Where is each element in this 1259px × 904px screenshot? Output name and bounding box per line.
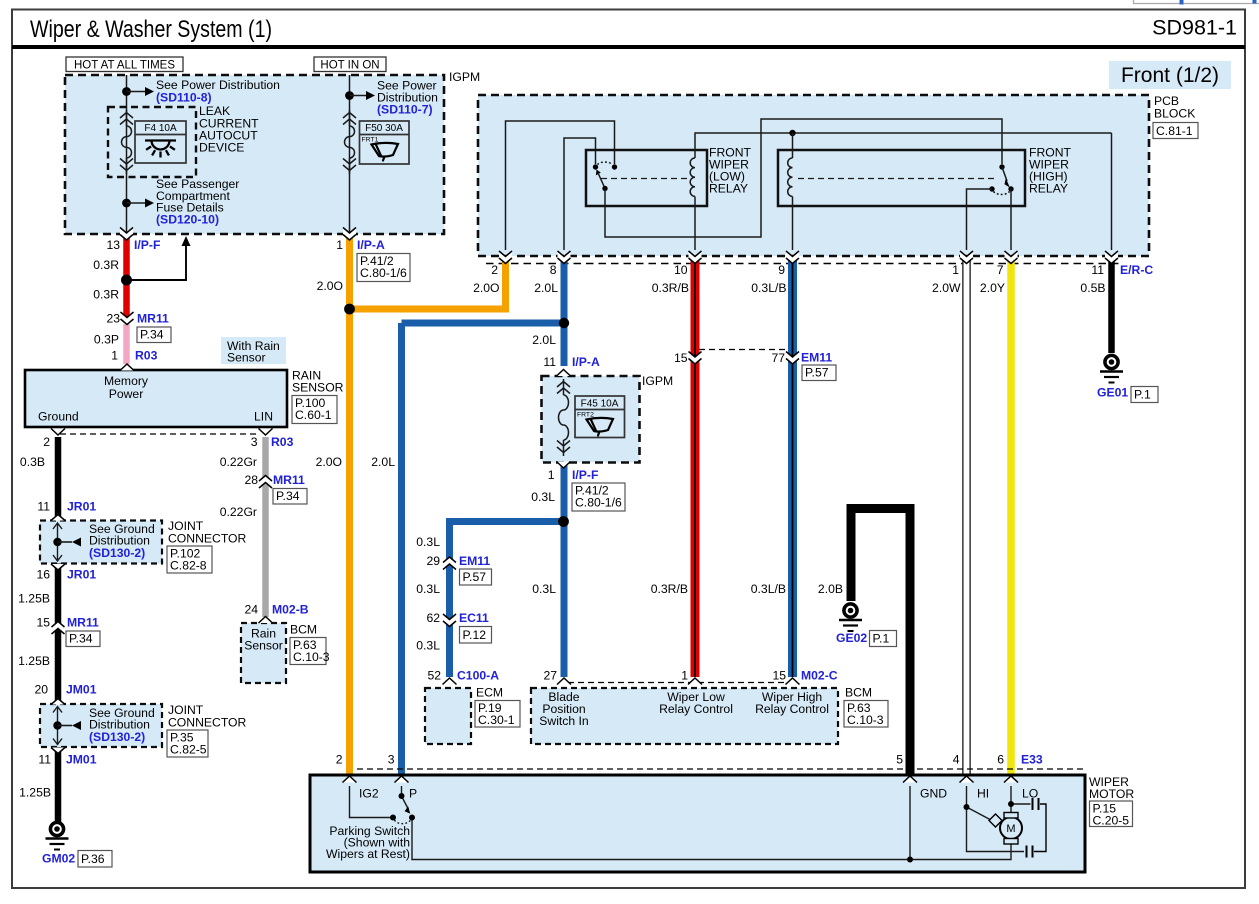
svg-text:15: 15 [772,669,786,683]
svg-text:JR01: JR01 [67,500,96,514]
svg-text:0.3R: 0.3R [93,288,119,302]
module memory power (rain sensor) [25,370,287,427]
svg-text:HI: HI [977,787,989,801]
refbox P.34 (MR11 28) [273,489,307,505]
svg-text:2.0O: 2.0O [473,281,499,295]
svg-text:LO: LO [1022,787,1038,801]
wire 0.3L branch [450,522,564,678]
svg-text:P.34: P.34 [276,489,300,503]
dashed connector line bottom [357,768,1083,770]
dashed link 15-77 [699,349,789,351]
svg-text:C.82-5: C.82-5 [170,742,207,756]
svg-text:HOT AT ALL TIMES: HOT AT ALL TIMES [74,60,175,72]
node orange junction [344,304,355,315]
connector chevron C100-A 52 [443,678,457,685]
svg-text:Memory: Memory [104,374,149,388]
connector chevron M02-B 24 [259,617,273,624]
connector chevron EC11 62 [443,614,456,627]
svg-text:Relay Control: Relay Control [659,702,733,716]
connector chevron MR11 28 [259,476,272,489]
wire rail to pin11 [1111,133,1113,250]
svg-text:C100-A: C100-A [457,669,499,683]
ground GE01 symbol [1100,355,1123,382]
svg-text:2.0W: 2.0W [932,281,961,295]
PCB BLOCK box [478,95,1149,256]
svg-text:MR11: MR11 [273,473,305,487]
PCB pin 2 connector chevron [499,251,512,264]
svg-text:IG2: IG2 [359,787,379,801]
svg-text:(SD130-2): (SD130-2) [89,546,145,560]
svg-text:6: 6 [997,753,1004,767]
svg-text:Relay Control: Relay Control [755,702,829,716]
svg-text:SENSOR: SENSOR [292,381,344,395]
refbox P.41/2 C.80-1/6 [357,254,410,282]
svg-text:0.22Gr: 0.22Gr [220,455,257,469]
svg-text:EM11: EM11 [801,351,832,365]
refbox P.63 C.10-3 (rain) [290,638,330,665]
svg-text:2.0L: 2.0L [534,281,558,295]
relay box front wiper high [778,150,1025,206]
parking switch wiring [350,786,1012,860]
connector chevron I/P-F exit [557,462,571,469]
node joint connector 1 [53,538,61,546]
dashed connector line BCM pins [568,682,788,684]
wire 2.0O horizontal [350,306,510,313]
module rain sensor [241,623,286,683]
refbox P.36 [78,851,112,868]
node gnd join [907,857,913,863]
svg-text:2.0Y: 2.0Y [980,281,1005,295]
svg-text:3: 3 [388,753,395,767]
svg-text:C.80-1/6: C.80-1/6 [360,266,407,280]
wire hot-at-all-times feed [126,75,128,236]
connector chevron I/P-A 1 [343,228,356,241]
wire 2.0W white [962,258,971,775]
power distribution box (HOT feeds, IGPM) [65,75,444,234]
connector chevron pin 15 M02-C [786,678,800,685]
svg-text:F50 30A: F50 30A [365,123,403,134]
wire 0.3R [123,236,130,318]
svg-text:GE02: GE02 [836,631,867,645]
svg-text:CONNECTOR: CONNECTOR [168,716,247,730]
svg-text:IGPM: IGPM [642,374,673,388]
node coil rail junction [789,130,795,136]
svg-text:2.0L: 2.0L [532,333,556,347]
connector dashed line below PCB block [486,263,1122,265]
fuse F45 10A symbol [557,379,570,456]
svg-text:BCM: BCM [290,623,317,637]
svg-text:0.3L: 0.3L [531,490,555,504]
PCB pin 9 connector chevron [786,251,799,264]
svg-text:FRT2: FRT2 [577,412,594,419]
svg-text:5: 5 [896,753,903,767]
node blue junction lower [558,516,569,527]
ground GM02 symbol [46,822,69,849]
svg-text:23: 23 [106,312,120,326]
wire relay1 coil top rail [695,133,1112,150]
svg-text:0.3R: 0.3R [93,258,119,272]
title rule [12,45,1245,49]
connector chevron JR01 11 [51,515,65,521]
svg-text:C.81-1: C.81-1 [1156,124,1193,138]
svg-text:(SD120-10): (SD120-10) [156,213,219,227]
svg-text:RELAY: RELAY [1029,182,1068,196]
wire 0.3P pink [123,324,130,364]
svg-text:RELAY: RELAY [709,182,748,196]
refbox P.57 (EM11 29) [460,569,492,585]
wire 2.0O pin2 stub [502,258,509,309]
svg-text:11: 11 [37,500,50,514]
svg-text:JM01: JM01 [66,753,97,767]
svg-text:2: 2 [336,753,343,767]
svg-text:C.20-5: C.20-5 [1093,813,1130,827]
PCB pin 8 connector chevron [558,251,571,264]
relay1 switch contacts [593,162,617,170]
wire 1.25B ground lower [55,747,62,822]
svg-text:1: 1 [952,263,959,277]
svg-text:I/P-F: I/P-F [134,238,160,252]
svg-text:1.25B: 1.25B [19,786,51,800]
wire 2.0L branch horizontal [402,320,565,327]
svg-text:LIN: LIN [254,410,273,424]
svg-text:0.3L: 0.3L [416,639,440,653]
relay2 coil [788,133,793,206]
wire pin2 to relay1 NO contact [506,121,615,250]
svg-text:(SD110-8): (SD110-8) [156,91,212,105]
refbox P.35 C.82-5 [167,730,208,757]
svg-text:C.10-3: C.10-3 [847,713,884,727]
svg-text:CONNECTOR: CONNECTOR [168,532,247,546]
motor box entry chevron [343,776,357,783]
wire hot-in-on feed [349,75,351,236]
wiper icon F45 [587,418,614,436]
page thumbnail bar fragment [1134,0,1259,5]
wire 1.25B ground mid [55,564,62,705]
svg-text:EC11: EC11 [459,611,489,625]
svg-text:SD981-1: SD981-1 [1152,16,1237,40]
relay1 linkage dashed [601,178,689,180]
svg-text:Sensor: Sensor [227,351,266,365]
svg-text:15: 15 [36,616,50,630]
connector chevron R03 1 [120,364,134,371]
wire 2.0Y yellow [1007,258,1015,775]
svg-text:11: 11 [543,355,556,369]
wire 0.3L to blade position pin27 [561,462,568,677]
connector chevron 77 (blue) [786,352,799,365]
dashed connector line R03 [60,433,258,435]
svg-text:7: 7 [997,263,1004,277]
joint connector box 1 [40,521,162,564]
fuse F4 10A label box [135,121,186,163]
relay1 coil [690,150,695,206]
svg-text:P.1: P.1 [1134,388,1151,402]
refbox P.41/2 C.80-1/6 (2) [572,483,625,511]
connector chevron JM01 11 [51,748,65,754]
refbox P.57 [802,365,836,381]
PCB pin 7 connector chevron [1005,251,1018,264]
svg-text:Ground: Ground [38,410,79,424]
svg-text:P.57: P.57 [463,570,487,584]
LEAK CURRENT AUTOCUT DEVICE box [108,107,196,177]
connector chevron I/P-F 13 [120,228,133,241]
node passenger fuse tap [122,199,131,208]
wire 2.0L branch to parking switch [398,323,405,775]
svg-text:0.22Gr: 0.22Gr [220,505,257,519]
svg-text:M02-B: M02-B [272,603,309,617]
fuse F50 30A label box [360,121,410,164]
svg-text:27: 27 [543,669,557,683]
svg-text:E/R-C: E/R-C [1120,263,1153,277]
relay1 switch arm [596,170,608,192]
svg-text:9: 9 [778,263,785,277]
connector chevron memory pin2 [51,429,65,436]
svg-text:11: 11 [38,753,51,767]
svg-text:1.25B: 1.25B [18,592,50,606]
node power distribution tap 2 [345,91,354,100]
connector chevron JM01 20 [51,699,65,705]
wire relay2 coil to pin9 [792,206,794,250]
svg-text:M02-C: M02-C [801,669,838,683]
wire 2.0L pin8 upper [561,258,568,366]
svg-text:1.25B: 1.25B [18,654,50,668]
svg-text:IGPM: IGPM [449,70,480,84]
node blue junction upper [559,318,569,328]
svg-text:F45 10A: F45 10A [581,399,619,410]
connector chevron memory pin3 [259,429,273,436]
wire LO internal [1011,786,1031,813]
svg-text:EM11: EM11 [459,554,490,568]
fuse F45 10A label box [575,396,625,438]
svg-text:P.34: P.34 [140,327,164,341]
svg-text:Wipers at Rest): Wipers at Rest) [326,847,410,861]
HOT IN ON tag [314,57,386,72]
refbox P.12 [460,627,492,644]
svg-text:1: 1 [681,669,688,683]
refbox P.1 (GE01) [1131,387,1158,403]
wire 0.3L/B wiper high relay [788,258,797,677]
svg-text:GE01: GE01 [1097,386,1128,400]
svg-text:I/P-A: I/P-A [357,238,385,252]
With Rain Sensor highlight [221,337,286,364]
svg-text:13: 13 [106,238,120,252]
svg-text:P.34: P.34 [69,631,93,645]
wire 0.3B ground upper [55,437,62,521]
svg-text:2.0O: 2.0O [316,455,342,469]
svg-text:P: P [409,787,417,801]
svg-text:0.3L: 0.3L [416,535,440,549]
svg-text:24: 24 [244,603,258,617]
svg-text:Sensor: Sensor [244,639,283,653]
svg-text:1: 1 [548,468,555,482]
module wiper motor box [310,775,1085,872]
motor M [989,813,1022,845]
svg-text:I/P-A: I/P-A [572,355,600,369]
svg-text:3: 3 [251,435,258,449]
fuse F50 30A symbol [343,110,356,174]
svg-text:16: 16 [36,568,50,582]
PCB pin 10 connector chevron [689,251,702,264]
svg-text:(SD130-2): (SD130-2) [89,730,145,744]
svg-text:0.3R/B: 0.3R/B [651,582,688,596]
svg-text:BCM: BCM [845,686,872,700]
svg-text:0.3B: 0.3B [20,455,45,469]
svg-text:Front (1/2): Front (1/2) [1121,64,1219,87]
svg-text:0.3L/B: 0.3L/B [751,582,786,596]
svg-text:28: 28 [244,473,258,487]
svg-text:GM02: GM02 [42,852,75,866]
wiper icon F50 [372,143,399,161]
fuse F4 10A symbol [120,110,133,174]
svg-text:JR01: JR01 [67,568,96,582]
wire relay2 NC to pin1 [967,189,993,250]
refbox P.1 (GE02) [870,631,897,647]
wire HI internal [967,786,1025,852]
svg-text:0.3R/B: 0.3R/B [652,281,689,295]
arrow see ground distribution 1 [58,538,82,547]
wire GND pin5 internal [909,786,911,860]
connector chevron into IGPM [557,370,571,377]
wire 0.5B to GE01 [1108,258,1115,353]
svg-text:4: 4 [953,753,960,767]
svg-text:(SD110-7): (SD110-7) [377,103,433,117]
joint connector 2 internal [53,707,62,745]
svg-text:GND: GND [920,787,947,801]
connector chevron pin 27 [557,678,571,685]
svg-text:MOTOR: MOTOR [1089,787,1134,801]
Front (1/2) highlight [1109,61,1231,89]
svg-text:0.3L: 0.3L [416,582,440,596]
refbox C.81-1 [1153,123,1198,139]
svg-text:BLOCK: BLOCK [1154,107,1195,121]
svg-text:2: 2 [43,435,50,449]
refbox P.102 C.82-8 [167,546,212,573]
wire relay2 NO to pin7 [1010,189,1012,250]
svg-text:10: 10 [674,263,688,277]
connector chevron pin 1 low [688,678,702,685]
relay2 switch [989,164,1013,194]
svg-text:FRT1: FRT1 [362,137,379,144]
svg-text:C.80-1/6: C.80-1/6 [575,495,622,509]
arrow see passenger fuse details [127,199,155,208]
svg-text:20: 20 [34,683,48,697]
connector chevron MR11 15 [52,622,65,635]
svg-text:0.3L/B: 0.3L/B [751,281,786,295]
wire 0.3R/B wiper low relay [691,258,700,677]
refbox P.63 C.10-3 (BCM) [844,701,888,728]
connector chevron MR11 23 [121,312,134,325]
motor box entry chevron [1004,776,1018,783]
svg-text:Power: Power [109,387,144,401]
svg-text:P.1: P.1 [873,632,890,646]
svg-text:0.5B: 0.5B [1080,281,1105,295]
wire relay1 coil to pin10 [694,206,696,250]
wire relay1 output to relay2 contact [605,119,1002,237]
svg-text:0.3L: 0.3L [532,582,556,596]
wire 2.0O main vertical [346,236,353,775]
relay box front wiper low [586,150,707,206]
joint connector box 2 [40,704,162,747]
svg-text:2: 2 [491,263,498,277]
svg-text:I/P-F: I/P-F [572,468,598,482]
refbox P.34 (MR11 15) [66,631,100,647]
svg-text:0.3P: 0.3P [94,333,119,347]
wire 2.0B ground loop [851,509,910,776]
capacitor bottom [1027,846,1033,858]
svg-text:ECM: ECM [476,686,503,700]
svg-text:15: 15 [674,351,688,365]
svg-text:1: 1 [336,238,343,252]
svg-text:M: M [1006,823,1015,835]
node LO junction [1008,801,1014,807]
parking switch contacts [390,793,415,821]
IGPM fuse F45 box [542,376,640,463]
node HI junction [964,804,970,810]
connector chevron 15 (red) [689,352,702,365]
capacitor top [1033,798,1047,852]
node power distribution tap [122,87,131,96]
node 0.3R junction [121,275,132,286]
motor box entry chevron [903,776,917,783]
svg-text:1: 1 [111,349,118,363]
svg-text:Switch In: Switch In [539,714,588,728]
arrow see power distribution [127,87,155,96]
svg-text:8: 8 [550,263,557,277]
svg-text:P.12: P.12 [463,628,487,642]
refbox P.15 C.20-5 [1090,801,1133,827]
motor box entry chevron [395,776,409,783]
joint connector 1 internal [53,523,62,561]
motor box entry chevron [960,776,974,783]
PCB pin 1 connector chevron [960,251,973,264]
svg-text:R03: R03 [135,349,158,363]
module BCM [531,688,838,744]
lamp icon (leak autocut) [145,141,176,158]
ground GE02 symbol [839,604,862,631]
svg-text:77: 77 [771,351,785,365]
arrow up into power box [130,236,191,280]
refbox P.34 (MR11 23) [137,327,171,343]
connector chevron JR01 16 [51,564,65,570]
svg-text:MR11: MR11 [137,312,169,326]
svg-text:P.57: P.57 [805,365,829,379]
svg-text:29: 29 [426,554,440,568]
module ECM [425,688,471,744]
svg-text:E33: E33 [1021,753,1043,767]
PCB pin 11 connector chevron [1105,251,1118,264]
svg-text:2.0B: 2.0B [818,582,843,596]
node joint connector 2 [53,721,61,729]
svg-text:62: 62 [426,611,440,625]
arrow see ground distribution 2 [58,721,82,730]
svg-text:11: 11 [1091,263,1104,277]
HOT AT ALL TIMES tag [66,57,183,72]
svg-text:C.60-1: C.60-1 [295,408,332,422]
connector chevron EM11 29 [443,557,456,570]
svg-text:C.10-3: C.10-3 [293,650,330,664]
svg-text:Wiper & Washer System (1): Wiper & Washer System (1) [30,16,272,43]
svg-text:C.30-1: C.30-1 [478,713,515,727]
svg-text:F4 10A: F4 10A [144,123,177,134]
relay2 linkage dashed [798,178,996,180]
refbox P.100 C.60-1 [292,396,337,424]
svg-text:HOT IN ON: HOT IN ON [320,60,379,72]
wire 0.22Gr LIN [262,437,269,617]
wire pin8 to relay1 common [564,138,596,250]
svg-text:2.0L: 2.0L [371,455,395,469]
svg-text:2.0O: 2.0O [317,279,343,293]
arrow see power distribution 2 [350,91,376,100]
svg-text:52: 52 [427,669,441,683]
